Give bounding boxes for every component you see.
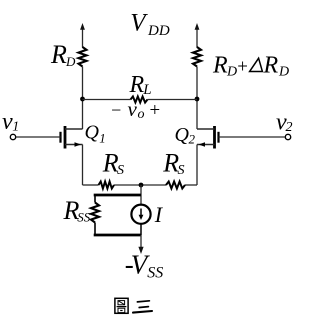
transistor Q2 [197,126,219,149]
label RS left [102,149,124,178]
terminal v2 [285,134,290,139]
wire: RSS top connector (thick) [94,194,141,197]
transistor Q1 [61,126,83,149]
svg-text:D: D [278,65,289,80]
svg-text:S: S [178,163,185,178]
svg-text:SS: SS [77,210,91,225]
label RD [50,40,76,69]
resistor RD [79,47,87,67]
svg-text:Q: Q [175,124,190,146]
node: tail junction [139,183,144,188]
wire: right drain column [196,67,198,130]
label v1 [2,109,19,135]
node: right drain junction [195,97,200,102]
svg-text:1: 1 [99,130,106,145]
svg-text:D: D [65,54,76,69]
resistor RD+dRD [193,47,201,67]
resistor RS left with wires [83,182,142,189]
wire: RSS bottom connector (thick) [94,234,141,237]
svg-text:+: + [148,100,161,121]
label Q2 [175,124,196,147]
resistor RL with connecting wire [83,97,198,103]
svg-text:Q: Q [85,122,100,144]
svg-text:o: o [138,107,145,122]
node: left drain junction [80,97,85,102]
svg-text:−: − [110,100,122,120]
svg-text:1: 1 [12,120,19,135]
terminal v1 [10,134,15,139]
label RD+dRD [212,53,289,80]
wire: left supply arrow [80,23,85,48]
wire: left source column [82,145,84,186]
svg-text:S: S [117,163,124,178]
label v2 [276,110,293,136]
label RL [129,72,152,98]
svg-text:R: R [263,53,279,79]
wire: left drain column [82,67,84,130]
svg-text:+: + [236,57,249,78]
wire: v1 gate lead [16,136,61,138]
svg-text:L: L [142,82,151,98]
current source I [131,205,150,224]
label RS right [162,149,184,178]
label -VSS [125,250,164,282]
svg-text:I: I [154,202,164,227]
label I [154,202,164,227]
wire: tail down to current source [140,185,142,205]
svg-text:2: 2 [189,132,196,147]
resistor RSS [91,195,99,235]
resistor RS right with wires [141,182,197,189]
label VDD [130,10,170,40]
label -vo+ [110,97,161,122]
svg-text:DD: DD [147,23,170,39]
svg-text:SS: SS [147,265,163,282]
caption: figure three (圖三) drawn as strokes [115,298,152,313]
svg-text:R: R [50,40,67,69]
label RSS [63,196,91,225]
svg-text:R: R [212,53,228,79]
svg-text:V: V [130,10,148,37]
wire: -VSS stub with arrow [138,224,143,254]
svg-text:R: R [129,72,145,98]
svg-text:v: v [128,97,138,121]
svg-text:2: 2 [286,120,293,135]
wire: right supply arrow [195,23,200,48]
label Q1 [85,122,106,146]
wire: right source column [196,145,198,186]
wire: v2 gate lead [219,136,286,138]
